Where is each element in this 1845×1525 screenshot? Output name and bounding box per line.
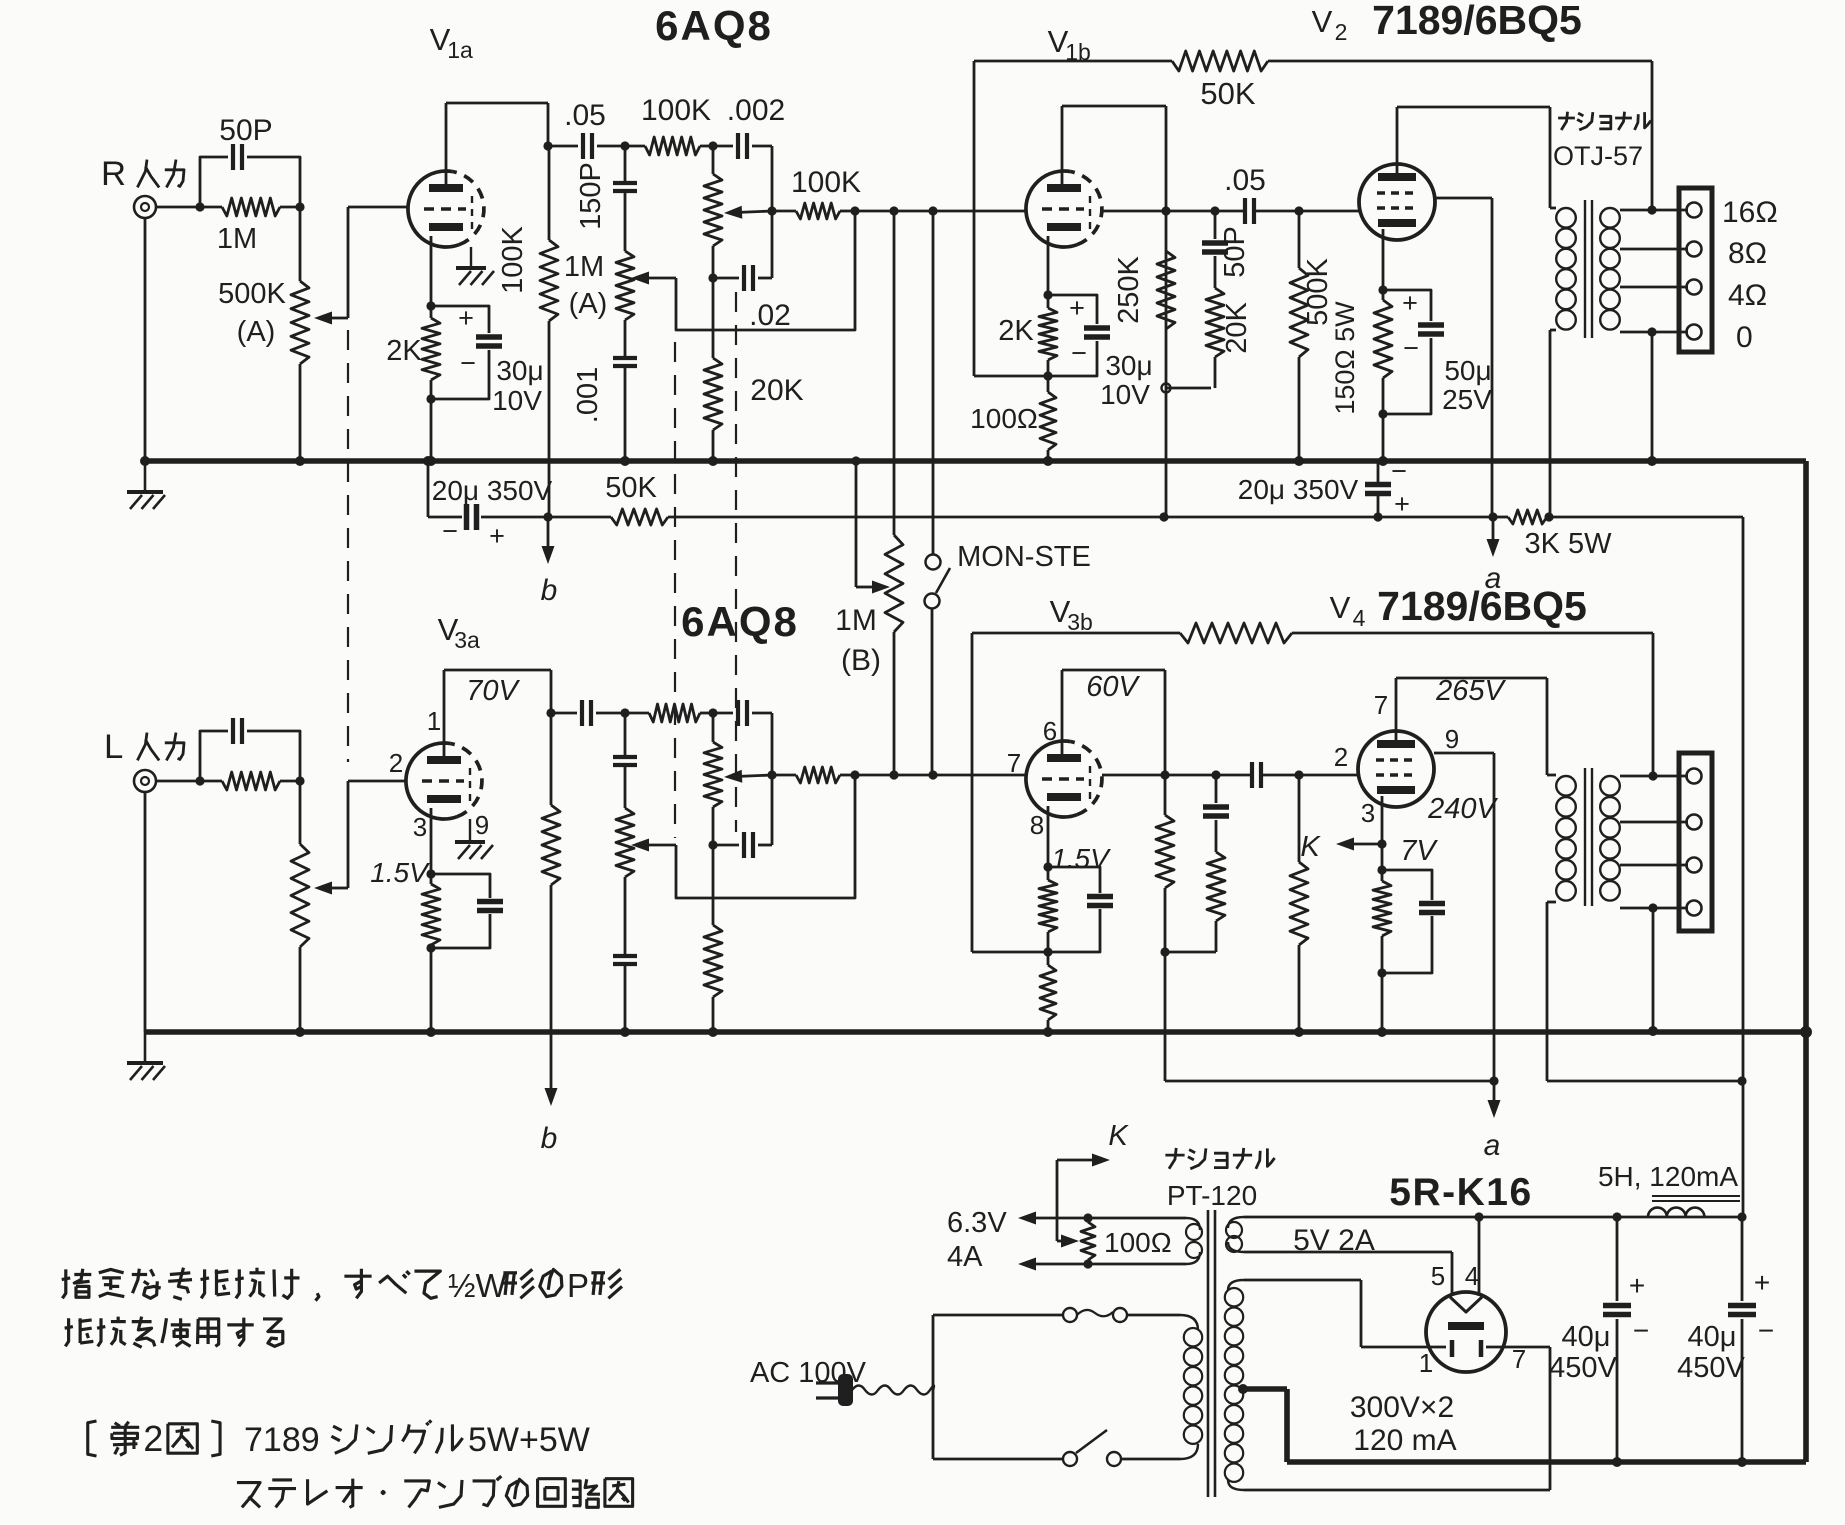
label rectifier pins [1419,1261,1526,1378]
label V1a [430,22,473,63]
tube V1a 6AQ8 triode [408,171,484,247]
svg-text:+: + [1629,1270,1645,1301]
svg-text:10V: 10V [1100,379,1150,410]
svg-text:450V: 450V [1549,1352,1617,1384]
svg-text:(A): (A) [237,316,276,348]
wire .002 to .02 right side [771,146,774,278]
capacitor .002 L [713,700,772,726]
transformer PT HV winding [1225,1280,1244,1490]
wire .002 to .02 right side L [771,713,774,845]
ground R input [127,461,165,509]
resistor 20K V1b [1206,288,1253,388]
wire AC line fuse side [933,1308,1180,1322]
resistor cathode V4 [1373,844,1391,1032]
capacitor input bypass L [200,718,300,781]
label 1M (B) [0,0,1,1]
wire V2 plate to OPT [1397,107,1550,208]
inductor choke 5H 120mA [1598,1161,1740,1217]
svg-text:(B): (B) [841,644,881,677]
transformer OPT1 secondary [1600,208,1620,330]
switch power [933,1430,1180,1466]
svg-text:6AQ8: 6AQ8 [655,2,773,49]
svg-text:K: K [1300,831,1321,863]
caption figure line1 [88,1419,590,1459]
svg-text:2K: 2K [386,335,422,367]
svg-text:100K: 100K [497,225,529,293]
wire V4 cathode [1377,796,1386,849]
resistor 1M input R [200,198,300,255]
transformer PT primary winding [1180,1315,1202,1459]
svg-text:.02: .02 [749,299,791,332]
svg-text:8: 8 [1030,810,1044,840]
wire ground bus upper [145,458,1806,464]
resistor plate load V3a [542,708,560,1032]
node K tag PSU [1057,1120,1129,1248]
resistor 100ohm hum V1b [970,376,1056,461]
svg-text:2: 2 [1335,19,1348,45]
wire NFB loop lower [972,633,1180,952]
wire V1a cathode [430,236,433,306]
svg-text:4A: 4A [947,1241,983,1273]
switch MON-STE S1 [925,211,1091,775]
svg-text:2K: 2K [998,315,1034,347]
wire treble wiper to 100K tap [676,213,855,330]
svg-text:16Ω: 16Ω [1722,196,1778,229]
label V3b pins [1007,716,1057,840]
svg-text:K: K [1108,1120,1129,1152]
svg-text:7189: 7189 [244,1421,320,1459]
wire OPT1 tap 16ohm [1620,205,1688,214]
wire jack ground L [144,792,147,1032]
node b arrow lower [541,1032,558,1155]
wire OPT1 tap 4ohm [1620,286,1688,289]
wire OPT1 tap 8ohm [1620,248,1688,251]
svg-text:L: L [104,728,123,766]
svg-text:V: V [1312,4,1333,39]
label V2 7189/6BQ5 [1312,0,1582,45]
resistor 100K grid stopper V1b [767,166,861,219]
svg-text:9: 9 [475,810,489,840]
node coupling junction L [620,708,629,717]
node V1b plate line [1102,206,1243,215]
resistor 20K R [704,278,804,461]
capacitor .02 L [713,832,772,858]
resistor 50K NFB upper [1172,51,1652,210]
svg-text:40μ: 40μ [1562,1321,1611,1353]
wire heater line top [1018,1212,1186,1225]
node R input label [101,155,184,193]
potentiometer treble L [616,808,676,877]
svg-text:20K: 20K [750,374,803,407]
wire V1a plate to coupling node [446,103,548,184]
svg-text:300V×2: 300V×2 [1350,1391,1454,1424]
svg-text:20μ 350V: 20μ 350V [1238,474,1359,505]
tube V3b 6AQ8 triode [1026,741,1102,817]
svg-text:3b: 3b [1067,609,1093,635]
capacitor .05 coupling R [548,99,625,159]
svg-text:3a: 3a [454,627,480,653]
potentiometer 1M (A) bass R [704,146,772,283]
svg-text:.05: .05 [564,99,606,132]
capacitor .001 L [613,877,637,1032]
svg-text:25V: 25V [1442,384,1492,415]
resistor 150ohm 5W cathode V2 [1330,290,1392,461]
svg-text:b: b [541,1122,558,1155]
resistor hum V3b [1040,952,1056,1032]
svg-text:7V: 7V [1400,835,1438,867]
svg-text:100K: 100K [641,94,711,127]
label V3b [1050,594,1093,635]
svg-text:7: 7 [1007,748,1021,778]
wire ground bus lower [145,1029,1806,1035]
wire B+ feed lower channel [1165,1076,1499,1085]
svg-text:5W+5W: 5W+5W [468,1421,590,1459]
wire V3a plate riser [444,670,551,756]
resistor 20K L [704,845,722,1032]
svg-text:5: 5 [1431,1261,1445,1291]
wire grid line V1b [850,206,1026,215]
transformer OPT1 primary [1550,208,1576,517]
wire grid line V3b [850,770,1026,779]
svg-text:60V: 60V [1086,671,1140,703]
wire V3b plate riser [1062,670,1165,775]
capacitor coupling V4 [1252,762,1299,788]
wire V4 grid [1299,774,1358,777]
svg-text:+: + [489,521,505,551]
caption figure line2 [237,1476,633,1507]
node input L junctions [195,776,304,785]
wire OPT2 primary to B+ [1547,1076,1747,1085]
wire OPT2 tap 8ohm [1620,821,1688,824]
wire 5V return to pin5 [1244,1252,1452,1296]
capacitor 30u 10V cathode V1a [431,303,544,416]
svg-text:50K: 50K [1200,76,1255,111]
capacitor 40u 450V first [1549,1217,1649,1467]
capacitor 50P input R [200,114,300,207]
svg-text:.05: .05 [1224,164,1266,197]
node coupling junction [620,141,629,150]
svg-text:P: P [567,1267,589,1304]
potentiometer bass L [704,713,772,850]
svg-text:(A): (A) [569,288,608,320]
node title 6AQ8 lower [681,598,799,645]
wire OPT1 tap 0 [1620,327,1688,461]
resistor grid leak V4 [1290,770,1308,1032]
wire OPT2 tap 0 [1620,903,1688,1031]
svg-text:450V: 450V [1677,1352,1745,1384]
wire 5V 2A line [1244,1217,1743,1257]
svg-text:50K: 50K [605,472,657,504]
wire V1b cathode [1043,236,1052,300]
svg-text:+: + [1754,1267,1770,1298]
capacitor 50P V3b [1203,775,1229,852]
svg-text:V: V [1330,590,1351,625]
potentiometer 1M (B) balance [835,211,903,775]
svg-text:1M: 1M [217,223,257,255]
svg-text:MON-STE: MON-STE [957,541,1091,573]
svg-text:+: + [1069,293,1085,323]
wire V3b cathode [1043,806,1052,872]
svg-text:9: 9 [1445,724,1459,754]
wire gang dashed treble [674,342,676,838]
label 240V [1427,793,1498,825]
wire HV center tap B- [1238,1384,1287,1462]
svg-text:100Ω: 100Ω [970,403,1038,434]
svg-text:PT-120: PT-120 [1167,1180,1257,1211]
capacitor .05 coupling V2 [1224,164,1299,224]
label 7V [1400,835,1438,867]
resistor 50K dropping b [548,472,1164,525]
potentiometer 500K (A) volume R VR1 [218,207,348,461]
resistor cathode V3b [1039,867,1057,957]
capacitor 20u 350V screen rail [1164,456,1410,522]
capacitor 20u 350V decoupling b [428,461,553,551]
svg-text:1: 1 [427,706,441,736]
svg-text:−: − [442,516,458,546]
label National PT-120 [1165,1148,1274,1211]
capacitor 40u 450V second [1677,1217,1774,1467]
resistor 20K V3b [1165,852,1225,952]
wire OPT2 tap top [1620,771,1688,780]
resistor plate load V3b [1156,775,1174,952]
node V3b plate line [1102,770,1250,779]
potentiometer 500K volume L [291,781,348,1032]
wire gang dashed 500K [347,330,349,762]
node B+ rail junction V1b loads [1159,512,1168,521]
label 300Vx2 120mA [1350,1391,1457,1457]
capacitor 150P L [613,713,637,808]
wire V2 grid [1299,210,1359,213]
node input R junctions [195,202,304,211]
potentiometer 100ohm hum balance [1081,1222,1172,1260]
node plate loads junction V3b [1160,947,1169,1081]
capacitor .002 R [713,94,785,159]
transformer OPT2 core [1585,768,1592,906]
label OPT1 National OTJ-57 [1553,112,1651,171]
node a arrow [1378,512,1501,595]
wire V4 screen [1434,753,1494,1081]
label V4 pins [1334,690,1459,828]
svg-text:−: − [1633,1315,1649,1346]
svg-text:6.3V: 6.3V [947,1207,1007,1239]
svg-text:2: 2 [143,1419,163,1459]
svg-text:7189/6BQ5: 7189/6BQ5 [1372,0,1582,43]
capacitor cathode bypass V3b [1048,867,1113,952]
plug AC [816,1374,934,1406]
label V4 7189/6BQ5 [1330,583,1587,631]
svg-text:.002: .002 [727,94,785,127]
svg-text:3: 3 [1361,798,1375,828]
svg-text:30μ: 30μ [1105,350,1152,381]
svg-text:½W: ½W [448,1267,508,1304]
tube 5R-K16 rectifier [1426,1292,1506,1372]
node 100K/.002 junction [708,141,717,150]
svg-text:−: − [1071,338,1087,368]
wire V1b plate riser [1062,106,1166,517]
svg-text:50P: 50P [219,114,272,147]
svg-text:R: R [101,155,126,193]
wire gang dashed bass [735,292,737,832]
label 6.3V 4A [947,1207,1007,1273]
node a arrow lower [1484,1081,1501,1162]
label 1.5V V3a [370,857,430,888]
wire heavy right vertical [1800,461,1812,1462]
resistor 50K NFB lower [1180,623,1653,776]
wire volume L wiper to V3a grid [348,781,406,888]
svg-text:+: + [1394,489,1410,519]
label speaker taps [1722,196,1778,354]
wire balance wiper from ground bus [851,456,890,593]
tube V4 7189 pentode [1358,731,1434,807]
capacitor .001 R [572,320,637,461]
svg-text:1.5V: 1.5V [370,857,430,888]
capacitor 150P R [575,146,637,251]
svg-text:40μ: 40μ [1688,1321,1737,1353]
svg-text:8Ω: 8Ω [1728,237,1767,270]
wire rectifier pin4 to B+ [1474,1212,1483,1296]
resistor 2K cathode V1b [998,295,1057,381]
resistor 250K plate load V1b [1113,251,1175,329]
resistor cathode V3a [422,869,440,1032]
svg-text:3: 3 [413,812,427,842]
node title 6AQ8 upper [655,2,773,49]
wire HV bottom to pin7 [1244,1347,1550,1490]
resistor 100K grid stopper V3b [767,767,855,783]
capacitor coupling L [551,700,625,726]
capacitor .02 R [713,265,791,332]
wire HV top to pin1 [1244,1280,1446,1347]
svg-text:250K: 250K [1113,255,1145,323]
capacitor cathode bypass V3a [431,874,503,948]
capacitor 50u 25V cathode V2 [1383,288,1492,415]
node 100K/.002 junction L [708,708,717,717]
svg-text:5R-K16: 5R-K16 [1389,1171,1532,1214]
svg-text:4Ω: 4Ω [1728,279,1767,312]
resistor 2K cathode V1a [386,301,440,461]
svg-text:b: b [541,574,558,607]
svg-text:−: − [1391,456,1407,486]
transformer OPT1 core [1585,200,1592,338]
wire treble L wiper tap [676,777,855,898]
resistor 100K tone R [625,94,713,155]
svg-text:1: 1 [1419,1348,1433,1378]
label V3a pins [389,706,489,842]
ground L input [127,1032,165,1080]
svg-text:100K: 100K [791,166,861,199]
svg-text:265V: 265V [1435,675,1506,707]
tube V1b 6AQ8 triode [1026,171,1102,247]
svg-text:100Ω: 100Ω [1104,1227,1172,1258]
node K tag lower [1300,831,1382,863]
svg-text:7: 7 [1512,1344,1526,1374]
node bus junctions upper [140,456,1657,466]
node b arrow [541,512,558,607]
svg-text:1M: 1M [835,604,877,637]
node 250K bottom junction [1162,384,1212,393]
resistor 1M input L [200,772,300,790]
svg-text:150Ω 5W: 150Ω 5W [1330,301,1360,415]
wire 500K wiper to V1a grid [348,207,408,318]
wire AC input left [932,1315,935,1459]
label 5R-K16 [1389,1171,1532,1214]
capacitor 30u 10V cathode V1b [1048,293,1153,410]
wire OPT2 tap 4ohm [1620,864,1688,867]
svg-text:6AQ8: 6AQ8 [681,598,799,645]
svg-text:0: 0 [1736,321,1753,354]
svg-text:30μ: 30μ [496,355,543,386]
svg-text:20K: 20K [1221,302,1253,354]
svg-text:a: a [1484,1129,1501,1162]
transformer OPT2 primary [1547,775,1576,1081]
RCA jack L-ch J2 [134,770,200,792]
resistor 500K grid leak V2 [1290,206,1334,461]
node bus junctions lower [295,1026,1658,1037]
svg-text:−: − [1403,333,1419,363]
transformer PT heater winding [1186,1218,1202,1264]
ground V3a internal shield pin [455,819,493,859]
svg-text:.001: .001 [572,367,604,423]
note resistor wattage line1 [62,1267,622,1304]
wire jack ground R [144,218,147,461]
ground V1a internal shield pin [456,247,494,285]
svg-text:+: + [458,303,474,333]
svg-text:OTJ-57: OTJ-57 [1553,141,1643,171]
svg-text:150P: 150P [575,162,607,230]
label AC 100V [750,1357,867,1389]
resistor 3K 5W [1493,510,1612,560]
transformer PT core [1208,1210,1215,1497]
node choke terminals [1612,1212,1746,1221]
capacitor 50P V1b [1202,211,1251,288]
note resistor wattage line2 [65,1317,283,1348]
svg-text:50μ: 50μ [1444,355,1491,386]
svg-text:4: 4 [1465,1261,1479,1291]
label 265V [1435,675,1506,707]
wire B- heavy line [1287,1459,1806,1465]
svg-text:240V: 240V [1427,793,1498,825]
svg-text:3K 5W: 3K 5W [1524,528,1612,560]
svg-text:20μ 350V: 20μ 350V [432,475,553,506]
wire V3a cathode [430,808,433,874]
node L input label [104,728,184,766]
label 70V [466,675,520,707]
svg-text:6: 6 [1043,716,1057,746]
wire V2 screen to node a [1435,198,1492,517]
svg-text:70V: 70V [466,675,520,707]
svg-text:+: + [1402,288,1418,318]
svg-text:10V: 10V [492,385,542,416]
tube V2 7189 pentode [1359,164,1435,240]
wire V2 cathode [1378,229,1387,295]
svg-text:120 mA: 120 mA [1353,1424,1456,1457]
potentiometer 1M (A) treble R [564,251,676,320]
svg-text:1M: 1M [564,251,604,283]
svg-text:−: − [460,348,476,378]
wire heater line bottom [1018,1258,1186,1271]
wire B+ rail to choke node [1549,517,1743,1217]
transformer PT 5V winding [1226,1217,1244,1252]
label V1b [1048,24,1091,65]
resistor 100K plate load V1a [497,141,558,517]
label 1.5V V3b [1051,843,1111,874]
wire NFB loop upper [974,61,1172,376]
RCA jack R-ch J1 [134,196,200,218]
wire V4 plate to OPT2 [1396,678,1547,775]
label 60V [1086,671,1140,703]
svg-text:7: 7 [1374,690,1388,720]
svg-text:5H, 120mA: 5H, 120mA [1598,1161,1738,1192]
svg-text:1.5V: 1.5V [1051,843,1111,874]
